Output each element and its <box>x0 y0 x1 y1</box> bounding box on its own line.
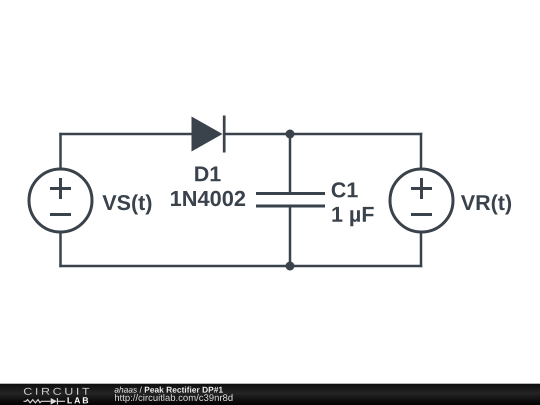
diode D1 <box>192 116 225 153</box>
node junction top <box>286 130 295 139</box>
label C1 <box>332 182 358 197</box>
CircuitLab logo text LAB <box>68 397 89 403</box>
wire right vertical bottom <box>420 232 423 268</box>
wire top-left segment <box>59 133 191 136</box>
CircuitLab logo text CIRCUIT <box>24 388 89 395</box>
footer url text <box>115 394 233 403</box>
capacitor C1 plates <box>256 194 325 207</box>
footer bar <box>0 384 540 405</box>
wire left vertical top <box>59 133 62 170</box>
wire diode cathode to right corner <box>225 133 422 136</box>
voltage source VS <box>29 169 92 232</box>
footer title text <box>115 387 223 393</box>
CircuitLab logo waveform with diode <box>24 398 66 405</box>
wire right vertical top <box>420 133 423 170</box>
value label 1 uF <box>332 207 373 226</box>
wire left vertical bottom <box>59 232 62 268</box>
value label 1N4002 <box>171 191 245 206</box>
node junction bottom <box>286 262 295 271</box>
label VS(t) <box>102 194 151 214</box>
capacitor C1 top lead wire <box>289 134 292 192</box>
label VR(t) <box>461 194 511 214</box>
label D1 <box>195 167 220 182</box>
wire bottom net <box>59 265 422 268</box>
capacitor C1 bottom lead wire <box>289 207 292 266</box>
voltage source VR <box>390 169 453 232</box>
